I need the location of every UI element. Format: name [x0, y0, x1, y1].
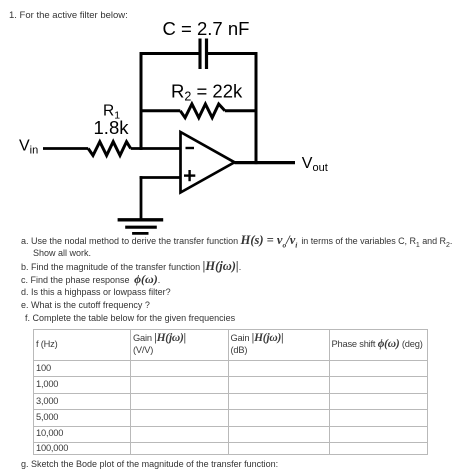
- wire: R2 left lead: [141, 109, 180, 112]
- wire: R2 right lead: [225, 109, 258, 112]
- ground bar 3: [132, 232, 148, 235]
- title: [9, 10, 128, 21]
- capacitor C plates: [198, 39, 201, 70]
- wire: Vin lead: [43, 147, 88, 150]
- wire: output wire: [235, 161, 296, 164]
- ground bar 2: [125, 226, 157, 229]
- circuit schematic: [0, 0, 474, 240]
- wire: non-inverting input wire: [140, 176, 180, 179]
- wire: top feedback wire right segment: [207, 52, 258, 55]
- question lines: [21, 235, 452, 247]
- wire: ground stem: [140, 176, 143, 220]
- resistor R1 zigzag: [88, 142, 131, 156]
- svg-text:Vin: Vin: [19, 138, 38, 157]
- svg-text:R2 = 22k: R2 = 22k: [171, 81, 243, 104]
- op-amp plus sign: [184, 174, 195, 176]
- resistor R2 zigzag: [180, 104, 225, 118]
- svg-text:1.8k: 1.8k: [94, 117, 130, 138]
- ground bar 1: [118, 218, 164, 221]
- wire: right vertical (output to feedback): [255, 52, 258, 164]
- op-amp U1 triangle: [181, 132, 235, 193]
- wire: left vertical (inverting node to feedback): [140, 52, 143, 150]
- wire: top feedback wire left segment: [141, 52, 199, 55]
- svg-text:Vout: Vout: [302, 155, 328, 174]
- op-amp minus sign: [186, 147, 195, 149]
- wire: inverting input wire: [131, 147, 180, 150]
- line g: [21, 459, 278, 470]
- table: [33, 329, 428, 455]
- svg-text:C = 2.7 nF: C = 2.7 nF: [163, 18, 250, 39]
